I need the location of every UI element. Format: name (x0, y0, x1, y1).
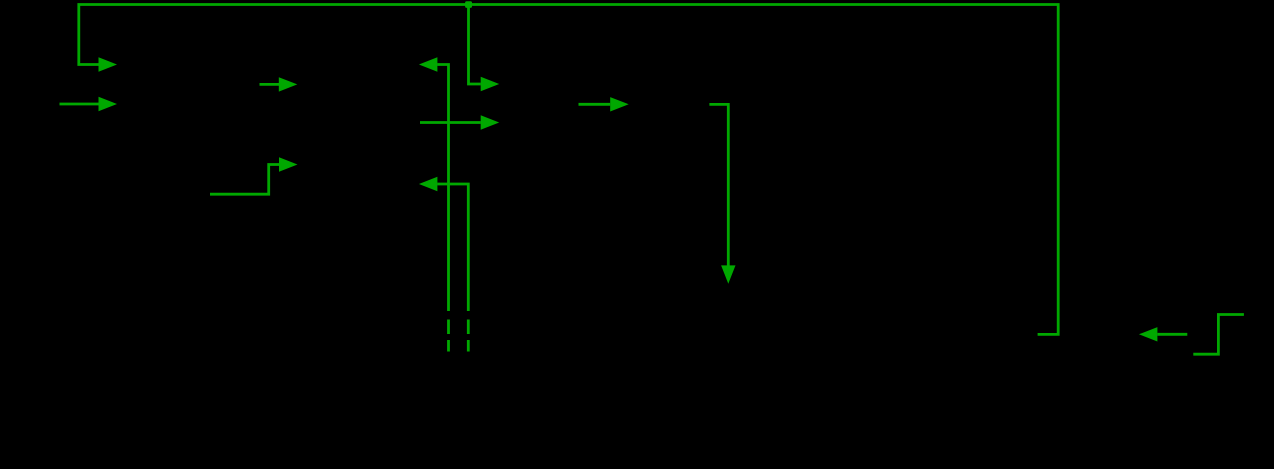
arrowhead B right (99, 97, 118, 111)
arrowhead G right (481, 115, 500, 129)
arrowhead A right (99, 57, 118, 71)
wire arrow mid-left (260, 83, 280, 86)
arrowhead H left (419, 177, 438, 191)
node junction dot (465, 1, 472, 8)
wire left arrow right side (1158, 333, 1188, 336)
wire input arrow left (60, 103, 99, 106)
arrowhead E right (481, 77, 500, 91)
wire left-arrow lower with vertical drop (437, 184, 468, 311)
wire junction branch down to arrow (469, 5, 481, 85)
arrowhead J down (721, 265, 735, 283)
arrowhead K left (1139, 327, 1158, 341)
wire feedback loop top (79, 5, 1058, 335)
wire step symbol right side (1193, 315, 1244, 355)
arrowhead D right (279, 157, 298, 171)
wire dashed continuation right vertical (467, 320, 470, 352)
wire arrow middle (579, 103, 611, 106)
arrowhead I right (610, 97, 629, 111)
wire down-arrow with stub (709, 104, 728, 265)
wire horizontal arrow crossing (420, 121, 481, 124)
arrowhead F left (419, 57, 438, 71)
arrowhead C right (279, 77, 298, 91)
wire left-arrow upper with vertical drop (437, 65, 448, 312)
wire dashed continuation left vertical (447, 320, 450, 352)
wire step arrow lower-left (210, 165, 279, 195)
